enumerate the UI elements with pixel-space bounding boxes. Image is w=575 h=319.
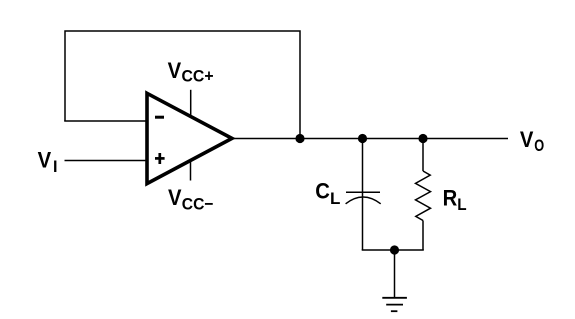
node junction dot at ground rail bbox=[390, 245, 399, 254]
wire ground stem bbox=[394, 250, 396, 298]
node junction dot at capacitor branch top bbox=[358, 134, 367, 143]
wire output from op-amp to VO bbox=[233, 138, 508, 140]
wire feedback loop from inverting input up over to output node bbox=[65, 31, 300, 139]
svg-text:O: O bbox=[534, 136, 544, 155]
wire VCC- supply pin stub bbox=[190, 162, 192, 181]
svg-text:R: R bbox=[443, 187, 458, 211]
label VI bbox=[38, 149, 58, 176]
svg-text:L: L bbox=[457, 195, 466, 214]
node junction dot at resistor branch top bbox=[418, 134, 427, 143]
label VCC+ bbox=[168, 59, 214, 86]
svg-text:V: V bbox=[168, 186, 182, 210]
svg-text:I: I bbox=[53, 157, 57, 176]
wire VCC+ supply pin stub bbox=[190, 90, 192, 117]
node junction dot at feedback/output bbox=[295, 134, 304, 143]
wire non-inverting input from VI bbox=[65, 160, 148, 162]
svg-text:L: L bbox=[330, 189, 340, 208]
resistor RL bbox=[416, 171, 431, 221]
svg-text:CC+: CC+ bbox=[182, 67, 214, 86]
label VO bbox=[520, 128, 544, 155]
wire resistor branch top lead bbox=[422, 139, 424, 172]
svg-text:C: C bbox=[315, 180, 330, 204]
wire inverting input bbox=[64, 120, 147, 122]
label RL bbox=[443, 187, 467, 214]
op-amp U1 bbox=[147, 93, 232, 183]
op-amp inverting input minus marker bbox=[155, 116, 164, 119]
svg-text:CC−: CC− bbox=[182, 195, 214, 214]
wire resistor branch bottom lead bbox=[422, 221, 424, 251]
op-amp non-inverting input plus marker bbox=[155, 153, 165, 164]
capacitor CL bbox=[346, 192, 381, 204]
ground bbox=[382, 298, 407, 311]
svg-text:V: V bbox=[520, 128, 534, 152]
svg-text:V: V bbox=[168, 59, 182, 83]
label VCC- bbox=[168, 186, 214, 214]
label CL bbox=[315, 180, 340, 208]
wire bottom rail joining CL and RL bbox=[362, 249, 424, 251]
svg-text:V: V bbox=[38, 149, 52, 173]
wire capacitor branch vertical bbox=[362, 139, 364, 251]
